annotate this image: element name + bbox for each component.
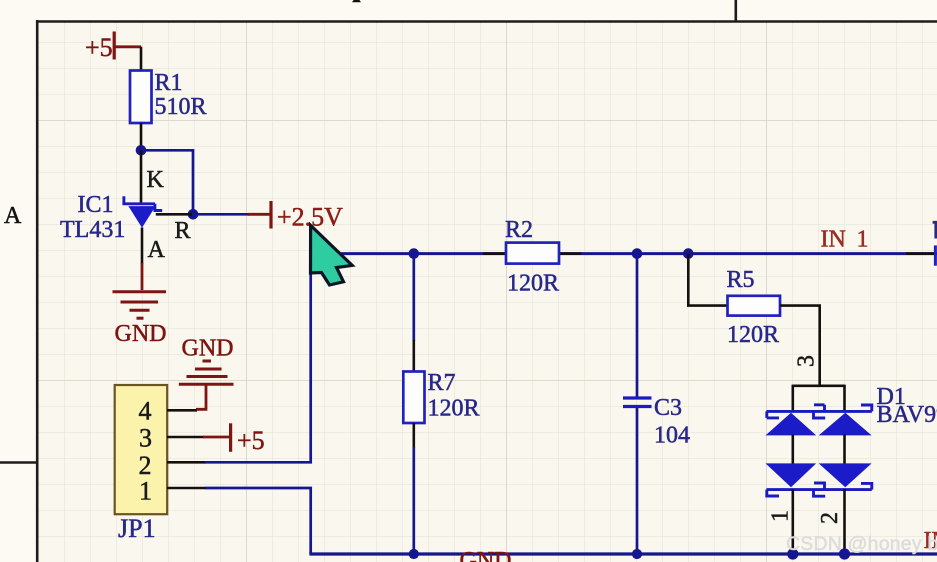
svg-text:120R: 120R — [727, 322, 779, 348]
svg-text:K: K — [147, 167, 165, 193]
ground stub — [141, 263, 144, 290]
ground earth symbol — [179, 361, 234, 409]
pin 4 wire — [167, 409, 197, 412]
svg-text:A: A — [148, 237, 166, 263]
shunt regulator IC1 TL431 — [122, 196, 162, 228]
diode D1c bottom-left — [766, 463, 817, 487]
wire R7 bottom — [412, 447, 415, 554]
pin K wire — [140, 150, 143, 202]
pin R1 bottom — [140, 123, 143, 150]
pin R2 left — [483, 252, 506, 255]
margin zone divider top — [734, 0, 737, 21]
svg-text:CSDN @honey ball: CSDN @honey ball — [786, 533, 937, 555]
svg-text:120R: 120R — [507, 271, 559, 297]
wire GND bottom bus — [309, 552, 937, 555]
cathode bar bottom pair — [767, 483, 872, 496]
diode D1b top-right — [819, 413, 872, 436]
wire to +2.5V port — [193, 213, 249, 216]
svg-text:+5: +5 — [85, 33, 113, 62]
svg-text:104: 104 — [654, 423, 690, 449]
power port +2.5V — [248, 201, 343, 232]
wire pin2 to +2.5V bus — [205, 254, 311, 463]
node junction D1 pin1 — [787, 548, 798, 559]
svg-text:1: 1 — [139, 477, 152, 506]
node junction D1 pin2 — [839, 548, 850, 559]
pin 1 wire stub — [167, 487, 206, 490]
wire R5 left — [688, 254, 728, 306]
svg-text:GND: GND — [115, 321, 167, 347]
svg-text:4: 4 — [139, 397, 152, 426]
node junction R7 bottom — [409, 549, 419, 559]
cathode bar of IC1 — [122, 196, 162, 210]
power port +5 (top) — [85, 32, 141, 63]
wire C3 top — [636, 254, 639, 397]
svg-text:+5: +5 — [237, 426, 265, 455]
node junction below R1 — [136, 145, 147, 156]
resistor R2 — [506, 243, 559, 264]
node junction at R pin — [188, 209, 199, 220]
svg-text:C3: C3 — [654, 395, 682, 421]
connector JP1 — [115, 385, 168, 514]
wire R7 top — [412, 254, 415, 341]
svg-text:IN: IN — [821, 227, 846, 253]
pin A wire — [141, 228, 144, 265]
node junction C3 bottom — [632, 549, 642, 559]
svg-text:1: 1 — [768, 510, 794, 522]
pin 2 wire stub — [167, 461, 206, 464]
sheet border top — [36, 20, 937, 23]
pin 3 wire — [167, 436, 204, 439]
cropped title text fragment — [352, 0, 361, 2]
svg-text:120R: 120R — [428, 396, 480, 422]
mouse cursor — [311, 225, 353, 285]
svg-text:R2: R2 — [505, 217, 533, 243]
pin 1 wire — [791, 489, 794, 552]
wire C3 bottom — [636, 408, 639, 554]
svg-text:JP1: JP1 — [118, 514, 156, 543]
node junction R7 top — [409, 248, 420, 259]
svg-text:R1: R1 — [155, 70, 183, 96]
wire pin1 to GND bus — [205, 488, 311, 554]
svg-text:3: 3 — [139, 424, 152, 453]
svg-text:1: 1 — [857, 227, 869, 253]
pin R2 right — [559, 252, 582, 255]
power port +5 (JP1 pin3) — [203, 423, 265, 455]
margin zone divider left — [0, 461, 37, 464]
mid link wires — [793, 435, 845, 465]
svg-text:R7: R7 — [428, 370, 456, 396]
svg-text:TL431: TL431 — [60, 217, 125, 243]
diode D1a top-left — [766, 413, 817, 436]
diode D1 BAV99 — [766, 385, 872, 552]
svg-text:GND: GND — [182, 336, 234, 362]
svg-text:R: R — [175, 218, 191, 244]
sheet border left — [36, 20, 39, 562]
partial resistor at right edge — [934, 245, 937, 265]
resistor R1 — [130, 71, 152, 124]
svg-text:A: A — [4, 203, 22, 229]
triangle body of IC1 — [128, 206, 155, 228]
cathode bar top pair — [767, 405, 872, 418]
diode D1d bottom-right — [819, 463, 872, 487]
partial designator text right edge — [933, 222, 937, 238]
wire main +2.5V horizontal bus — [309, 252, 937, 255]
pin R7 top — [412, 340, 415, 372]
node junction C3 top — [632, 248, 643, 259]
svg-text:IC1: IC1 — [78, 192, 114, 218]
wire R5 to D1 pin3 — [780, 306, 820, 386]
pin R wire — [156, 213, 192, 216]
wire +5 to R1 — [140, 47, 143, 71]
resistor R5 — [728, 296, 781, 316]
svg-text:2: 2 — [817, 512, 843, 524]
svg-text:R5: R5 — [727, 267, 755, 293]
capacitor C3 — [623, 398, 652, 407]
wire feedback loop — [141, 150, 193, 214]
ground GND symbol — [113, 292, 167, 319]
svg-text:3: 3 — [794, 355, 820, 367]
svg-text:BAV99: BAV99 — [877, 402, 937, 428]
resistor R7 — [403, 372, 424, 424]
svg-text:510R: 510R — [155, 94, 207, 120]
pin of partial resistor at right edge — [906, 252, 934, 255]
node junction R5 branch — [683, 248, 694, 259]
pin3 top tie bar — [793, 385, 845, 412]
pin R7 bottom — [412, 423, 415, 448]
svg-text:GND: GND — [460, 548, 512, 562]
pin 2 wire — [843, 489, 846, 552]
